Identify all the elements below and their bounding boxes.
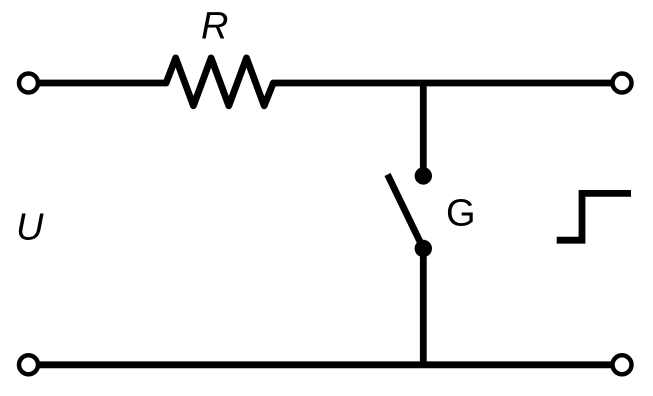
node switch bottom contact [415, 240, 432, 257]
wire bottom rail [29, 361, 623, 368]
wire top rail with resistor zigzag [29, 58, 623, 106]
wire switch branch lower [420, 249, 427, 365]
node switch top contact [415, 167, 432, 184]
step waveform symbol [557, 193, 631, 240]
terminal bottom-right [613, 355, 632, 374]
terminal bottom-left [19, 355, 38, 374]
svg-text:U: U [16, 207, 44, 249]
svg-text:R: R [201, 6, 228, 48]
wire switch branch upper [420, 83, 427, 176]
terminal top-right [613, 74, 632, 93]
svg-text:G: G [446, 193, 476, 235]
switch G lever [388, 175, 424, 249]
terminal top-left [19, 74, 38, 93]
